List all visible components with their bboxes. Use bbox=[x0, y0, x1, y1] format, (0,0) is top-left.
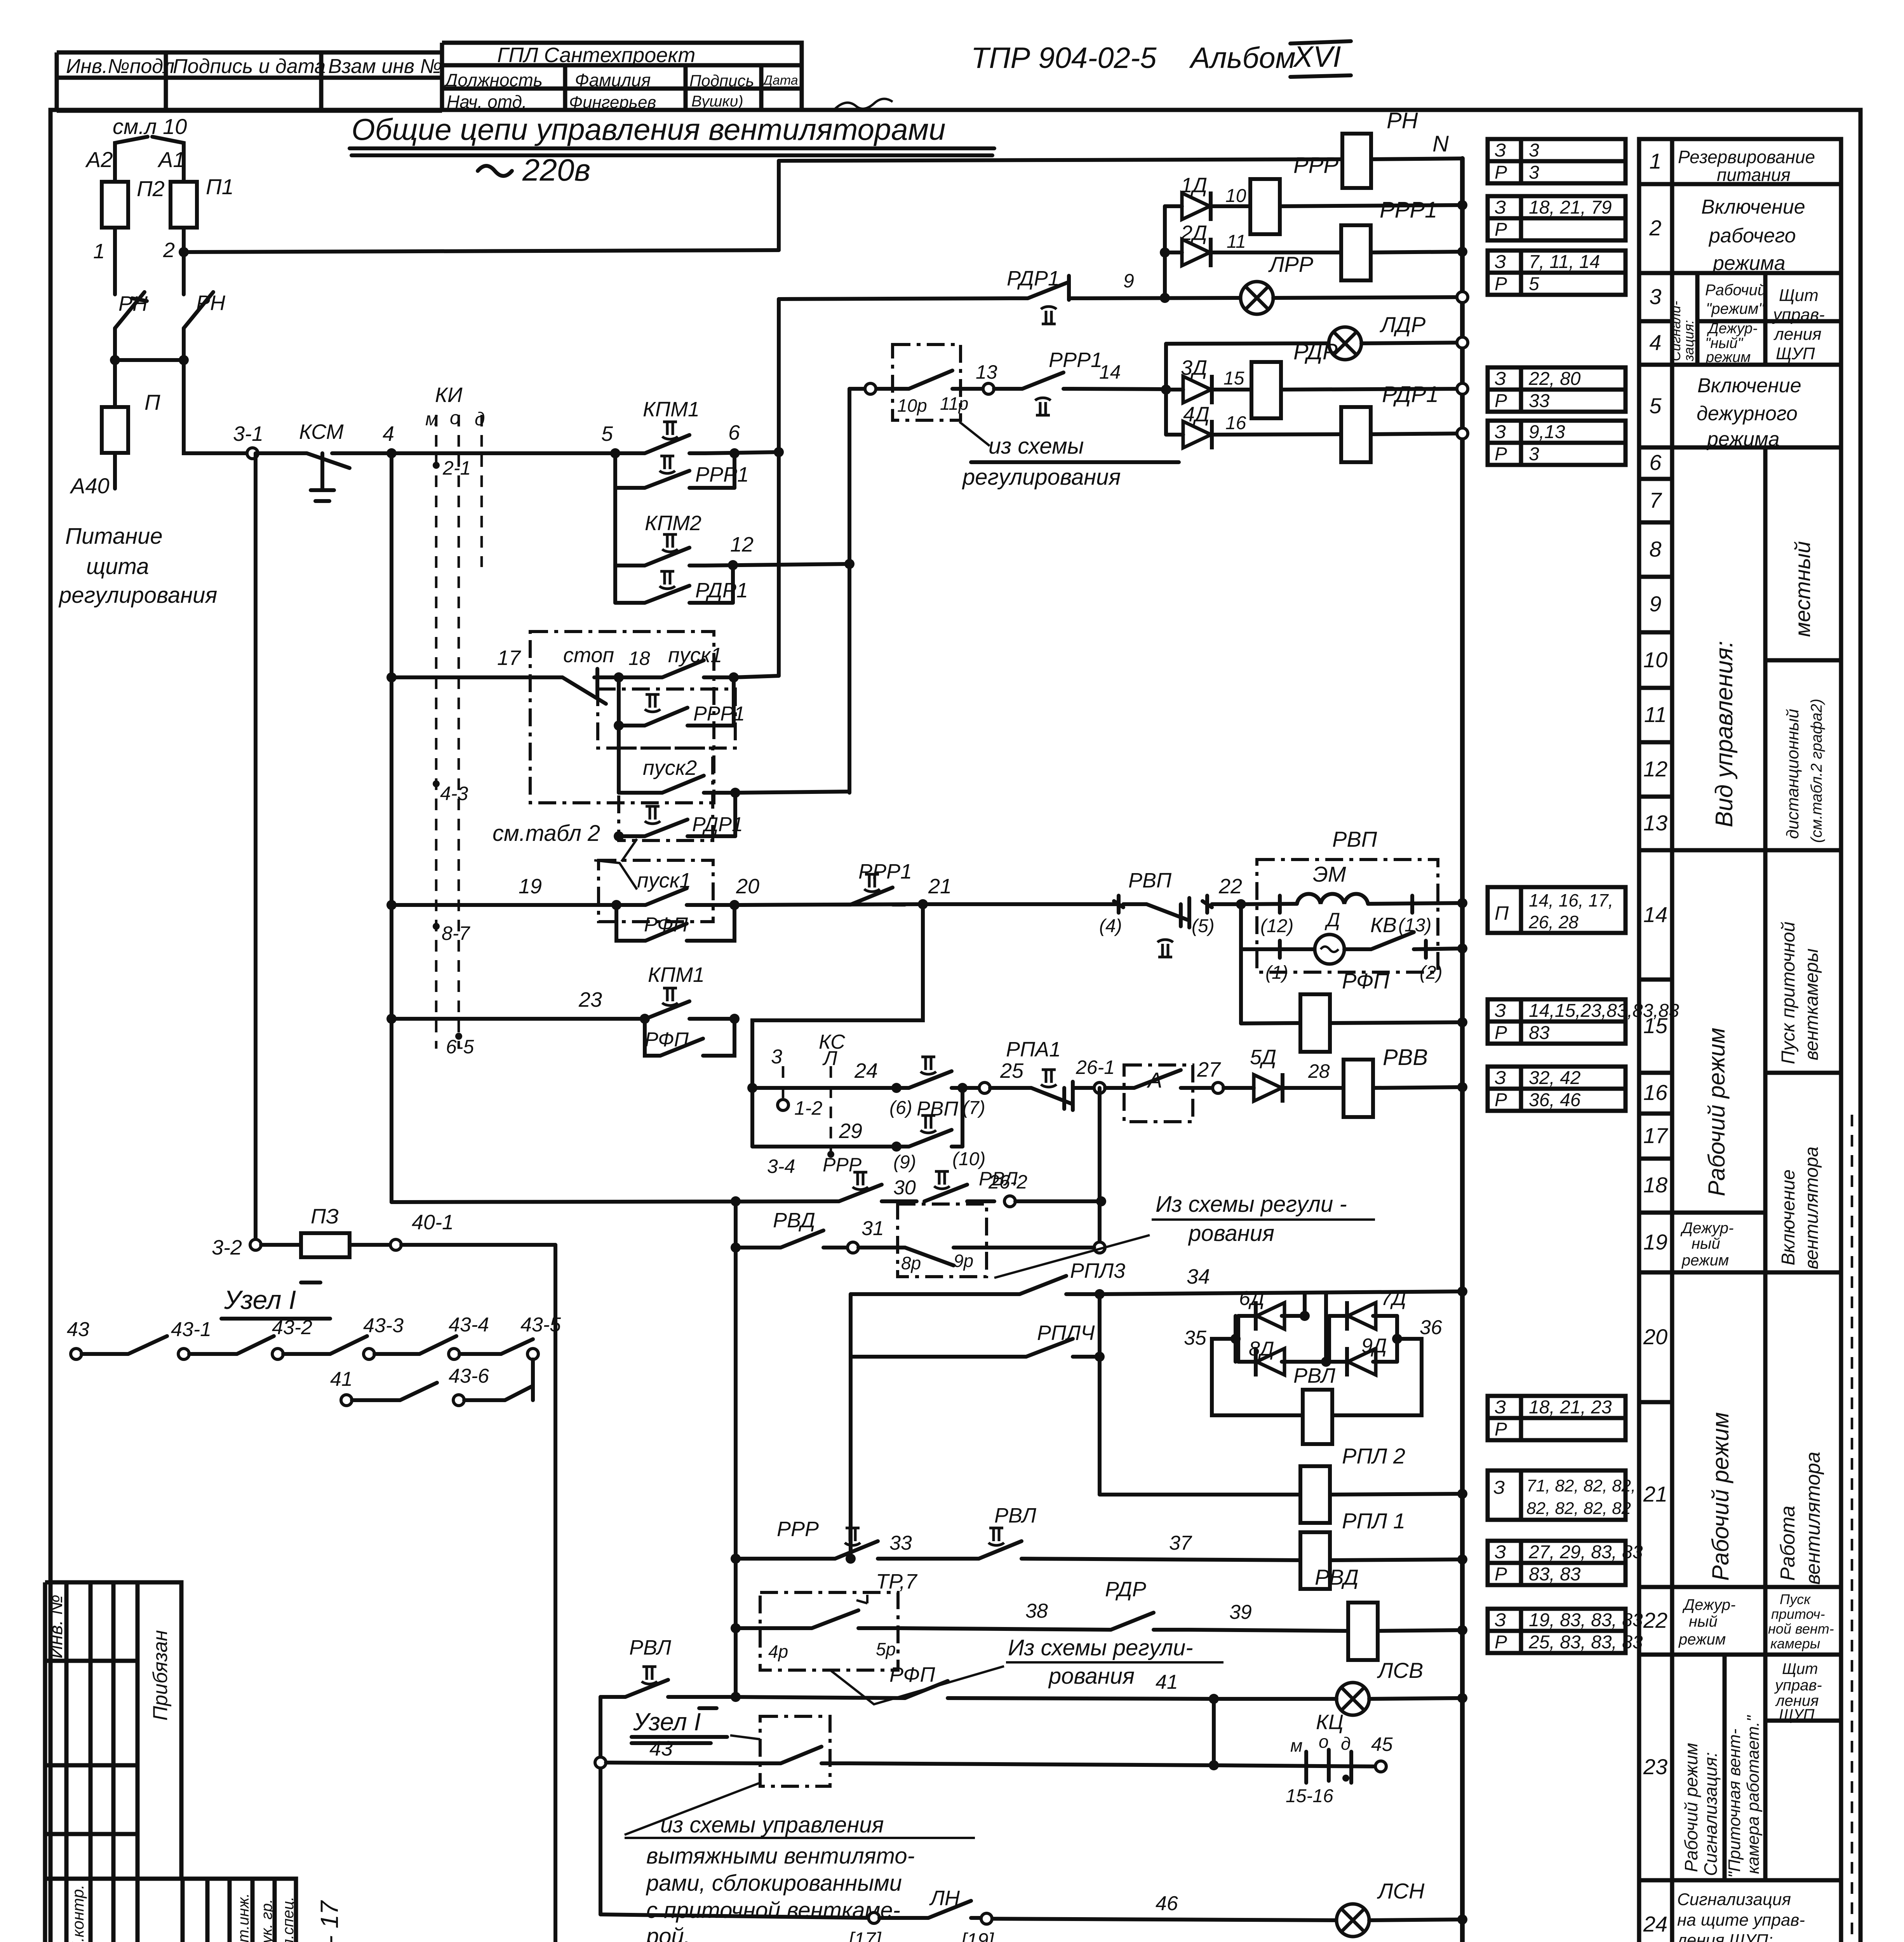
svg-text:Включение: Включение bbox=[1701, 196, 1805, 218]
svg-text:РДР: РДР bbox=[1105, 1578, 1146, 1601]
svg-text:Подпись и дата: Подпись и дата bbox=[173, 55, 325, 78]
relay coil РПЛ1 bbox=[1300, 1532, 1330, 1589]
inner box РРР1 bbox=[598, 689, 735, 748]
outer dash-dot box bbox=[530, 632, 714, 803]
function table grid bbox=[1639, 139, 1841, 1942]
relay coil РПЛ2 bbox=[1300, 1466, 1330, 1523]
svg-text:Рабочий режим: Рабочий режим bbox=[1704, 1028, 1730, 1196]
wire node21 down and left bbox=[752, 904, 923, 1147]
svg-text:Гл.спец.: Гл.спец. bbox=[280, 1897, 297, 1942]
svg-text:А40: А40 bbox=[70, 473, 110, 498]
svg-text:П: П bbox=[144, 390, 160, 414]
contact РВП timed make bbox=[892, 1071, 962, 1088]
svg-text:Рабочий режим: Рабочий режим bbox=[1681, 1743, 1701, 1872]
contact РВЛ timed make bbox=[934, 1171, 950, 1189]
svg-text:29: 29 bbox=[839, 1119, 862, 1143]
wire РПЛ4 row bbox=[851, 1355, 1026, 1359]
wire 13 start bbox=[849, 387, 893, 391]
svg-text:Инв.№подл: Инв.№подл bbox=[66, 55, 174, 78]
svg-text:220в: 220в bbox=[522, 153, 590, 187]
wire to 18 bbox=[594, 675, 619, 679]
svg-text:Питание: Питание bbox=[65, 524, 163, 549]
svg-text:З: З bbox=[1495, 252, 1506, 272]
svg-text:5: 5 bbox=[1649, 393, 1662, 418]
rows14-19 Рабочий режим bbox=[1672, 850, 1841, 1272]
svg-text:РВЛ: РВЛ bbox=[629, 1636, 672, 1659]
svg-text:Сигнализация:: Сигнализация: bbox=[1700, 1752, 1721, 1876]
wire row ЛРР from bus corner bbox=[779, 298, 1010, 299]
svg-text:вентилятора: вентилятора bbox=[1802, 1452, 1824, 1585]
box ТР7 dash-dot bbox=[760, 1592, 898, 1670]
svg-text:(4): (4) bbox=[1099, 916, 1122, 936]
svg-text:"режим": "режим" bbox=[1706, 300, 1765, 317]
wire 19 bbox=[386, 900, 397, 910]
svg-text:РФП: РФП bbox=[889, 1663, 935, 1686]
svg-text:З: З bbox=[1493, 1477, 1505, 1498]
row22 bbox=[1763, 1587, 1768, 1655]
wire ЛН row bbox=[600, 1914, 874, 1918]
relay coil РРР1 bbox=[1341, 225, 1371, 280]
klemma 2-1 bbox=[433, 462, 440, 469]
svg-text:23: 23 bbox=[1643, 1754, 1667, 1779]
svg-text:20: 20 bbox=[1643, 1324, 1667, 1349]
wire РДР to N bbox=[1281, 389, 1462, 390]
svg-text:7, 11, 14: 7, 11, 14 bbox=[1529, 252, 1600, 272]
diode 7Д bbox=[1347, 1301, 1376, 1331]
svg-text:30: 30 bbox=[893, 1176, 916, 1199]
svg-text:25: 25 bbox=[1000, 1059, 1024, 1082]
diode 4Д bbox=[1183, 420, 1212, 449]
svg-text:З: З bbox=[1495, 422, 1506, 442]
org box ГПЛ Сантехпроект bbox=[442, 43, 802, 111]
diode bridge right cell bbox=[1327, 1316, 1331, 1362]
svg-text:Дежур-: Дежур- bbox=[1682, 1596, 1736, 1613]
svg-text:ления ЩУП:: ления ЩУП: bbox=[1676, 1931, 1773, 1942]
svg-text:6Д: 6Д bbox=[1239, 1287, 1265, 1310]
node 2 junction bbox=[179, 247, 189, 257]
wire РПЛ3 row 34 bbox=[851, 1292, 1020, 1296]
svg-text:(9): (9) bbox=[893, 1152, 916, 1173]
svg-text:Прибязан: Прибязан bbox=[149, 1630, 172, 1721]
svg-text:ЩУП: ЩУП bbox=[1776, 344, 1815, 363]
contact ТР7 make bbox=[773, 1610, 898, 1628]
svg-text:4р: 4р bbox=[768, 1641, 788, 1662]
box Узел I contact dash-dot bbox=[760, 1716, 830, 1786]
svg-text:Включение: Включение bbox=[1778, 1169, 1799, 1265]
svg-text:11р: 11р bbox=[940, 393, 968, 414]
svg-text:46: 46 bbox=[1156, 1892, 1178, 1915]
svg-text:14: 14 bbox=[1099, 361, 1121, 383]
wire-ref table at y946 bbox=[1488, 367, 1626, 412]
svg-text:Взам инв №: Взам инв № bbox=[328, 55, 442, 78]
svg-text:д: д bbox=[1341, 1733, 1351, 1754]
klemma 27 bbox=[1193, 1086, 1213, 1090]
svg-text:РРР: РРР bbox=[777, 1517, 819, 1541]
terminal (13) bbox=[1410, 896, 1414, 913]
bus 26-1 down bbox=[1098, 1088, 1102, 1248]
svg-text:5: 5 bbox=[1529, 274, 1539, 294]
svg-text:4-3: 4-3 bbox=[440, 783, 468, 804]
wire-ref table at y3786 bbox=[1488, 1470, 1636, 1520]
contact 43 make bbox=[760, 1747, 849, 1763]
svg-text:ления: ления bbox=[1773, 325, 1821, 344]
svg-text:(7): (7) bbox=[962, 1098, 985, 1118]
branch to ПУСК1 node bbox=[732, 677, 736, 726]
diode bracket 3Д4Д bbox=[1164, 344, 1168, 435]
dashed line Л bbox=[830, 1066, 832, 1152]
svg-text:см.табл 2: см.табл 2 bbox=[493, 821, 600, 846]
svg-text:Из схемы регули-: Из схемы регули- bbox=[1008, 1635, 1193, 1660]
svg-text:4: 4 bbox=[1649, 330, 1661, 355]
vertical 3-1 down bbox=[254, 453, 258, 1245]
svg-text:(12): (12) bbox=[1260, 916, 1293, 936]
svg-text:43: 43 bbox=[649, 1737, 673, 1760]
wire to fuse П bbox=[113, 360, 117, 407]
svg-text:РПА1: РПА1 bbox=[1006, 1038, 1061, 1061]
svg-text:местный: местный bbox=[1790, 541, 1815, 637]
zажим (4) bbox=[1114, 896, 1123, 913]
sine source circle bbox=[1315, 934, 1344, 964]
fuse П2 bbox=[102, 182, 128, 228]
svg-text:РН: РН bbox=[196, 291, 226, 315]
wire 30 bbox=[392, 1201, 839, 1202]
svg-text:режима: режима bbox=[1706, 428, 1780, 451]
svg-text:из схемы: из схемы bbox=[989, 433, 1084, 459]
stamp verticals bbox=[66, 1879, 275, 1942]
dashed line О bbox=[458, 415, 460, 1049]
svg-text:П2: П2 bbox=[137, 176, 165, 201]
svg-text:83, 83: 83, 83 bbox=[1529, 1564, 1581, 1585]
svg-text:41: 41 bbox=[330, 1368, 353, 1390]
svg-text:11: 11 bbox=[1644, 702, 1667, 727]
svg-text:ПЗ: ПЗ bbox=[311, 1205, 339, 1228]
parallel РДР1 branch bbox=[615, 565, 733, 603]
wire below fuses bbox=[115, 228, 184, 294]
wire ЛДР to N bbox=[1361, 343, 1462, 343]
terminal (12) bbox=[1278, 896, 1282, 913]
svg-text:из схемы управления: из схемы управления bbox=[660, 1812, 884, 1838]
feeder bus x1008 bbox=[390, 453, 393, 1202]
svg-text:9: 9 bbox=[1649, 592, 1661, 616]
svg-text:РРР: РРР bbox=[1293, 153, 1338, 178]
svg-text:37: 37 bbox=[1169, 1532, 1192, 1554]
contact РРР timed make bbox=[853, 1172, 868, 1190]
svg-text:(6): (6) bbox=[889, 1098, 912, 1118]
wire-ref table at y505 bbox=[1488, 196, 1626, 240]
klemma 6-5 bbox=[455, 1033, 462, 1040]
wire-ref table at y2573 bbox=[1488, 999, 1679, 1044]
svg-text:Узел I: Узел I bbox=[633, 1708, 701, 1736]
svg-text:Р: Р bbox=[1495, 274, 1507, 294]
node join 24/29 bbox=[957, 1083, 968, 1093]
svg-text:камеры: камеры bbox=[1770, 1636, 1820, 1651]
box 8р 9р dash-dot bbox=[898, 1204, 987, 1277]
svg-text:3: 3 bbox=[1649, 284, 1661, 309]
contact РВП timed make bbox=[892, 1130, 962, 1147]
svg-text:З: З bbox=[1495, 1068, 1506, 1088]
svg-text:ЛСН: ЛСН bbox=[1377, 1879, 1425, 1903]
svg-text:43: 43 bbox=[67, 1318, 89, 1341]
svg-text:11: 11 bbox=[1227, 231, 1246, 252]
wire-ref table at y645 bbox=[1488, 251, 1626, 295]
bus riser x2005 bbox=[777, 161, 781, 250]
diode 2Д bbox=[1182, 238, 1211, 267]
box ПУСК2 bbox=[619, 748, 713, 840]
wire 43 continues bbox=[849, 1763, 1214, 1765]
svg-text:43-5: 43-5 bbox=[520, 1314, 561, 1336]
svg-text:РВП: РВП bbox=[1332, 827, 1377, 851]
svg-text:(см.табл.2 графа2): (см.табл.2 графа2) bbox=[1808, 699, 1825, 843]
svg-text:венткамеры: венткамеры bbox=[1801, 948, 1822, 1060]
vertical 1546 bbox=[599, 1697, 602, 1914]
svg-text:З: З bbox=[1495, 1001, 1506, 1021]
svg-text:Должность: Должность bbox=[443, 70, 543, 90]
svg-text:32, 42: 32, 42 bbox=[1529, 1068, 1580, 1088]
svg-text:9,13: 9,13 bbox=[1529, 422, 1565, 442]
lamp ЛСВ bbox=[1337, 1683, 1369, 1715]
svg-text:10: 10 bbox=[1643, 647, 1667, 672]
svg-text:22, 80: 22, 80 bbox=[1528, 369, 1581, 389]
svg-text:2Д: 2Д bbox=[1180, 221, 1207, 245]
zажим (5) bbox=[1203, 896, 1212, 913]
svg-text:19: 19 bbox=[1643, 1230, 1667, 1254]
svg-text:19, 83, 83, 83: 19, 83, 83, 83 bbox=[1529, 1610, 1643, 1631]
svg-text:12: 12 bbox=[730, 533, 754, 556]
svg-text:РВД: РВД bbox=[1315, 1565, 1359, 1589]
svg-text:4: 4 bbox=[383, 422, 394, 445]
svg-text:(2): (2) bbox=[1420, 962, 1443, 983]
svg-text:Альбом: Альбом bbox=[1189, 42, 1296, 75]
svg-text:РВЛ: РВЛ bbox=[994, 1504, 1037, 1527]
wire from node 2 to right bus bbox=[184, 250, 779, 252]
svg-text:Р: Р bbox=[1495, 219, 1507, 240]
svg-text:43-1: 43-1 bbox=[171, 1318, 211, 1341]
svg-text:З: З bbox=[1495, 369, 1506, 389]
svg-text:3: 3 bbox=[1529, 140, 1539, 161]
function table row numbers bbox=[1643, 149, 1668, 1942]
svg-text:"Приточная вент-: "Приточная вент- bbox=[1725, 1729, 1744, 1878]
svg-text:КПМ1: КПМ1 bbox=[648, 963, 705, 987]
svg-text:регулирования: регулирования bbox=[962, 465, 1121, 490]
svg-text:РПЛ3: РПЛ3 bbox=[1070, 1259, 1125, 1282]
parallel РФП make bbox=[616, 905, 734, 941]
svg-text:ТПР 904-02-5: ТПР 904-02-5 bbox=[971, 42, 1157, 75]
svg-text:Узел I: Узел I bbox=[224, 1285, 296, 1315]
КВ row bbox=[1239, 904, 1243, 1023]
svg-text:13: 13 bbox=[1643, 811, 1667, 835]
svg-text:18: 18 bbox=[628, 647, 650, 669]
svg-text:ЛРР: ЛРР bbox=[1268, 252, 1313, 277]
svg-text:Н.контр.: Н.контр. bbox=[69, 1885, 87, 1942]
contact inside box bbox=[893, 371, 961, 389]
svg-text:5Д: 5Д bbox=[1250, 1046, 1276, 1069]
box ПУСК1 bbox=[599, 860, 713, 922]
svg-text:Щит: Щит bbox=[1782, 1660, 1818, 1677]
leader из схемы регулирования bbox=[994, 1235, 1150, 1278]
leader lines bbox=[625, 1735, 975, 1838]
fuse ПЗ bbox=[261, 1243, 301, 1247]
relay coil РВВ bbox=[1344, 1060, 1373, 1117]
РФП coil row bbox=[1241, 1023, 1300, 1023]
svg-text:П1: П1 bbox=[206, 174, 234, 199]
wire to А40 bbox=[113, 453, 117, 489]
svg-text:10: 10 bbox=[1225, 186, 1246, 206]
lamp ЛДР bbox=[1329, 327, 1361, 360]
svg-text:6: 6 bbox=[1649, 450, 1662, 475]
svg-text:8-7: 8-7 bbox=[442, 922, 470, 944]
diode 6Д bbox=[1256, 1301, 1284, 1331]
klemma 8-7 bbox=[433, 923, 440, 930]
svg-text:2-1: 2-1 bbox=[442, 457, 471, 479]
svg-text:Рабочий: Рабочий bbox=[1705, 282, 1766, 299]
svg-text:(1): (1) bbox=[1265, 962, 1288, 983]
wire-ref table at y4142 bbox=[1488, 1609, 1643, 1653]
svg-text:Р: Р bbox=[1495, 1023, 1507, 1043]
svg-text:РН: РН bbox=[1387, 108, 1418, 133]
bus 2831 down to РПЛ2 bbox=[1098, 1294, 1102, 1495]
rows3-4 cells bbox=[1672, 273, 1841, 365]
svg-text:рой.: рой. bbox=[646, 1924, 690, 1942]
svg-text:режима: режима bbox=[1712, 252, 1786, 275]
svg-text:питания: питания bbox=[1717, 165, 1791, 185]
svg-text:РДР1: РДР1 bbox=[1007, 267, 1060, 290]
svg-text:14, 16, 17,: 14, 16, 17, bbox=[1529, 890, 1613, 910]
svg-text:38: 38 bbox=[1025, 1600, 1048, 1622]
svg-text:1: 1 bbox=[93, 240, 105, 263]
svg-text:РРР1: РРР1 bbox=[695, 463, 749, 486]
bracket to sheet 10 bbox=[115, 137, 184, 151]
svg-text:Р: Р bbox=[1495, 1419, 1507, 1440]
svg-text:РДР1: РДР1 bbox=[1382, 382, 1439, 407]
terminal (2) bbox=[1424, 941, 1428, 958]
header strip table bbox=[57, 52, 442, 111]
svg-text:рования: рования bbox=[1188, 1221, 1274, 1246]
N bus bbox=[1460, 158, 1465, 1942]
wire to 13 bbox=[961, 387, 989, 391]
svg-text:РПА1: РПА1 bbox=[1386, 1938, 1443, 1942]
svg-text:25, 83, 83, 83: 25, 83, 83, 83 bbox=[1528, 1632, 1643, 1653]
svg-text:43-4: 43-4 bbox=[449, 1314, 489, 1336]
svg-text:18, 21, 79: 18, 21, 79 bbox=[1529, 197, 1612, 218]
svg-text:д: д bbox=[475, 409, 485, 430]
svg-text:РРР1: РРР1 bbox=[1049, 348, 1102, 372]
svg-text:ГПЛ Сантехпроект: ГПЛ Сантехпроект bbox=[497, 44, 695, 67]
svg-text:17: 17 bbox=[1643, 1123, 1668, 1148]
svg-text:2: 2 bbox=[1649, 216, 1661, 240]
svg-text:9р: 9р bbox=[954, 1251, 973, 1271]
svg-text:26, 28: 26, 28 bbox=[1528, 912, 1579, 932]
svg-text:приточ-: приточ- bbox=[1771, 1606, 1825, 1622]
svg-text:управ-: управ- bbox=[1772, 305, 1825, 324]
svg-text:24: 24 bbox=[1643, 1912, 1667, 1936]
svg-text:З: З bbox=[1495, 140, 1506, 161]
svg-text:15: 15 bbox=[1643, 1013, 1668, 1038]
upper narrow block bbox=[45, 1582, 181, 1879]
svg-text:Дежур-: Дежур- bbox=[1707, 320, 1758, 337]
wire РН to N bbox=[1371, 158, 1462, 159]
wire А1 down bbox=[182, 151, 186, 182]
svg-text:РФП: РФП bbox=[644, 914, 688, 936]
merge wire bbox=[115, 328, 184, 360]
svg-text:4Д: 4Д bbox=[1183, 403, 1210, 426]
svg-text:Ст.инж.: Ст.инж. bbox=[235, 1893, 252, 1942]
svg-text:9Д: 9Д bbox=[1361, 1335, 1387, 1357]
wire-ref table at y3594 bbox=[1488, 1396, 1626, 1440]
svg-text:РПЛ 1: РПЛ 1 bbox=[1342, 1509, 1405, 1533]
svg-text:27: 27 bbox=[1197, 1058, 1221, 1081]
node 5 bbox=[610, 448, 620, 458]
svg-text:РФП: РФП bbox=[645, 1028, 689, 1051]
svg-text:регулирования: регулирования bbox=[58, 583, 217, 608]
svg-text:41: 41 bbox=[1156, 1671, 1178, 1693]
svg-text:8р: 8р bbox=[901, 1253, 921, 1273]
rows20-21 Рабочий режим / Работа вентилятора bbox=[1763, 1272, 1768, 1587]
wire 43 bbox=[595, 1757, 606, 1768]
lamp ЛСН bbox=[1337, 1904, 1369, 1937]
wire РРР to N bbox=[1280, 205, 1462, 206]
svg-text:23: 23 bbox=[578, 988, 602, 1011]
svg-text:РРР1: РРР1 bbox=[1380, 197, 1437, 223]
wire 20-21 bbox=[734, 904, 923, 905]
svg-text:Нач. отд.: Нач. отд. bbox=[447, 92, 527, 112]
svg-text:Вушкυ): Вушкυ) bbox=[691, 93, 743, 110]
svg-text:5р: 5р bbox=[876, 1639, 896, 1659]
svg-text:РВВ: РВВ bbox=[1383, 1045, 1428, 1070]
svg-text:З: З bbox=[1495, 1397, 1506, 1418]
svg-text:управ-: управ- bbox=[1774, 1677, 1822, 1694]
svg-text:Р: Р bbox=[1495, 444, 1507, 465]
svg-text:ный: ный bbox=[1692, 1235, 1720, 1252]
dashed line М bbox=[435, 415, 438, 1049]
klemma 4-3 bbox=[433, 780, 440, 787]
svg-text:21: 21 bbox=[928, 875, 952, 898]
wire 41 row bbox=[736, 1697, 905, 1698]
svg-text:стоп: стоп bbox=[563, 644, 614, 667]
relay coil РРР bbox=[1250, 179, 1280, 234]
svg-text:34: 34 bbox=[1187, 1265, 1210, 1288]
svg-text:26-1: 26-1 bbox=[1076, 1056, 1115, 1078]
svg-text:РДР: РДР bbox=[1293, 339, 1338, 364]
svg-text:33: 33 bbox=[1529, 391, 1550, 411]
svg-text:КСМ: КСМ bbox=[299, 420, 344, 444]
svg-text:режим: режим bbox=[1706, 349, 1751, 365]
wire РДР1 to N bbox=[1371, 433, 1462, 434]
svg-text:Подпись: Подпись bbox=[689, 71, 754, 90]
svg-text:27, 29, 83, 83: 27, 29, 83, 83 bbox=[1528, 1542, 1643, 1563]
svg-text:Вид управления:: Вид управления: bbox=[1711, 641, 1738, 827]
svg-text:ТР,7: ТР,7 bbox=[876, 1570, 918, 1593]
svg-text:(10): (10) bbox=[952, 1149, 985, 1169]
node after ПУСК1 bbox=[729, 672, 739, 682]
svg-text:на щите управ-: на щите управ- bbox=[1677, 1911, 1805, 1930]
fold mark dashed line bbox=[1851, 1115, 1854, 1942]
wire from node2 branch down bbox=[184, 360, 252, 453]
relay coil РДР bbox=[1251, 362, 1281, 418]
wire-ref table at y358 bbox=[1488, 139, 1626, 183]
wire-ref table at y3967 bbox=[1488, 1541, 1643, 1585]
lamp ЛРР bbox=[1241, 282, 1273, 314]
branch from node5 bbox=[613, 488, 617, 566]
function table texts bbox=[1667, 147, 1841, 1942]
svg-text:3: 3 bbox=[1529, 444, 1539, 465]
wire 33-37 bbox=[731, 1554, 741, 1564]
svg-text:А2: А2 bbox=[85, 147, 113, 172]
svg-text:3-4: 3-4 bbox=[767, 1155, 795, 1177]
relay coil РФП bbox=[1300, 994, 1330, 1052]
svg-text:Рабочий режим: Рабочий режим bbox=[1707, 1412, 1733, 1581]
svg-text:режим: режим bbox=[1678, 1631, 1726, 1648]
svg-text:ЩУП: ЩУП bbox=[1779, 1706, 1815, 1723]
